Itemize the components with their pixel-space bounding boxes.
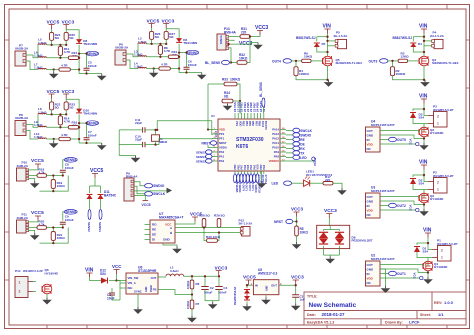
net flag LED (U1) xyxy=(293,155,300,159)
U1 left pins xyxy=(212,129,218,131)
wire xyxy=(229,43,258,45)
svg-text:Sheet:: Sheet: xyxy=(420,313,431,317)
wire xyxy=(63,160,64,169)
resistor R6 100k (fb top) xyxy=(190,280,194,289)
wire xyxy=(59,114,61,116)
wire xyxy=(179,44,202,73)
svg-text:10KΩ: 10KΩ xyxy=(300,231,309,235)
wire xyxy=(175,227,204,229)
svg-text:DE: DE xyxy=(152,233,156,237)
resistor R25 5R xyxy=(64,32,68,40)
wire xyxy=(191,276,193,280)
wire xyxy=(423,190,425,199)
svg-text:OUT4: OUT4 xyxy=(272,59,281,63)
svg-text:PA11: PA11 xyxy=(272,141,279,145)
svg-text:INH: INH xyxy=(128,286,133,290)
U1 bottom pins xyxy=(234,171,236,174)
diode D8 PESD5V0L2BT xyxy=(317,225,350,248)
net flag OUT5 xyxy=(389,137,397,141)
wire xyxy=(78,57,80,59)
svg-text:OUT: OUT xyxy=(367,195,374,199)
svg-text:VIN_SW: VIN_SW xyxy=(128,276,139,280)
svg-text:LPCF: LPCF xyxy=(409,320,420,325)
wire xyxy=(428,243,432,250)
svg-text:8MHZ: 8MHZ xyxy=(159,140,168,144)
net flag SENN2 xyxy=(86,51,99,56)
diode D10 TN4148W xyxy=(76,109,82,113)
svg-text:SENN3: SENN3 xyxy=(87,121,98,125)
svg-text:5Ω: 5Ω xyxy=(155,35,160,39)
wire xyxy=(205,300,219,302)
wire xyxy=(279,284,296,286)
svg-text:100nF: 100nF xyxy=(88,133,97,137)
wire xyxy=(427,273,429,278)
U1 right pins xyxy=(280,129,286,131)
wire xyxy=(392,61,394,67)
wire xyxy=(40,228,69,244)
diode D8 TN4148W xyxy=(76,39,82,43)
wire xyxy=(158,290,192,295)
svg-text:PESD5V0L2BT: PESD5V0L2BT xyxy=(352,239,373,243)
wire xyxy=(324,254,340,256)
junction xyxy=(423,36,425,38)
svg-text:MCP1416T-E/OT: MCP1416T-E/OT xyxy=(371,257,395,261)
svg-text:SENS3: SENS3 xyxy=(196,150,206,154)
svg-text:PB4: PB4 xyxy=(245,121,248,126)
svg-text:RO: RO xyxy=(152,223,157,227)
svg-text:Drawn By:: Drawn By: xyxy=(385,321,403,325)
svg-text:BL_SEN5: BL_SEN5 xyxy=(205,61,220,65)
wire xyxy=(51,40,53,45)
resistor R14 4.7K xyxy=(58,116,62,125)
power flag VCC (vertical) xyxy=(416,142,419,145)
svg-text:OUT: OUT xyxy=(271,284,277,288)
net flag SWDIO (vertical, under U1) xyxy=(253,174,256,183)
wire xyxy=(119,288,121,300)
wire xyxy=(137,294,139,307)
svg-text:TN4148W: TN4148W xyxy=(183,41,197,45)
svg-text:VDDA: VDDA xyxy=(219,146,227,150)
svg-text:S54: S54 xyxy=(419,116,425,120)
svg-text:S54: S54 xyxy=(419,182,425,186)
wire xyxy=(26,61,38,70)
svg-text:OUT5: OUT5 xyxy=(397,138,406,142)
net flag SWCLK xyxy=(145,192,153,196)
svg-text:OUT3: OUT3 xyxy=(369,59,378,63)
wire xyxy=(417,252,432,258)
ground xyxy=(34,233,36,235)
transistor Q3 HY1904D xyxy=(419,127,429,137)
net flag SWCLK (vertical, under U1) xyxy=(256,174,259,183)
wire xyxy=(191,309,193,316)
wire xyxy=(423,124,425,133)
svg-text:MCP1416T-E/OT: MCP1416T-E/OT xyxy=(371,123,395,127)
svg-text:BOOT0: BOOT0 xyxy=(264,121,267,130)
svg-text:D5: D5 xyxy=(322,42,326,46)
svg-text:10KΩ: 10KΩ xyxy=(57,184,66,188)
svg-text:R33: R33 xyxy=(222,78,228,82)
svg-text:VCC3: VCC3 xyxy=(291,207,304,212)
svg-text:5Ω: 5Ω xyxy=(169,35,174,39)
diode D2 S54 xyxy=(410,179,416,185)
resistor R24 5R xyxy=(50,32,54,40)
power flag VCC (vertical) xyxy=(416,208,419,211)
resistor R7 100k (fb bottom) xyxy=(190,300,194,309)
svg-text:S54: S54 xyxy=(100,272,106,276)
wire xyxy=(119,144,142,146)
svg-text:SENN2: SENN2 xyxy=(87,52,98,56)
ground (Q5) xyxy=(328,80,330,82)
svg-text:VDD: VDD xyxy=(238,121,241,126)
wire xyxy=(79,53,85,55)
wire xyxy=(184,275,219,277)
net flag TX (U1) xyxy=(293,151,300,155)
wire xyxy=(26,131,38,140)
wire xyxy=(63,212,64,221)
net flag SWCLK (U1) xyxy=(293,128,300,132)
wire xyxy=(153,69,155,71)
svg-text:PB3: PB3 xyxy=(242,121,245,126)
junction xyxy=(391,60,393,62)
wire xyxy=(46,126,68,128)
wire xyxy=(46,57,68,59)
wire xyxy=(208,83,224,85)
svg-text:R7: R7 xyxy=(196,302,200,306)
wire xyxy=(333,183,342,188)
wire xyxy=(53,139,55,141)
svg-text:VCC5: VCC5 xyxy=(31,158,44,164)
wire xyxy=(424,175,428,182)
svg-text:SWCLK: SWCLK xyxy=(300,129,312,133)
junction xyxy=(50,113,52,115)
net flag OUT4 (vertical, under U1) xyxy=(240,174,243,183)
wire xyxy=(417,243,428,245)
wire xyxy=(159,139,213,145)
wire xyxy=(146,68,159,70)
junction xyxy=(150,43,152,45)
wire xyxy=(423,139,425,144)
svg-text:PA0: PA0 xyxy=(219,150,225,154)
svg-text:D4: D4 xyxy=(418,42,422,46)
wire xyxy=(208,129,212,131)
wire xyxy=(380,143,416,145)
wire xyxy=(29,175,37,177)
wire xyxy=(296,236,298,242)
svg-text:VDD: VDD xyxy=(219,128,225,132)
svg-text:PF1: PF1 xyxy=(219,137,225,141)
svg-text:SYNC: SYNC xyxy=(134,290,142,294)
svg-text:OUT2: OUT2 xyxy=(248,185,251,192)
svg-text:XH2B-2A: XH2B-2A xyxy=(115,46,129,50)
ground (Q6) xyxy=(46,298,48,300)
wire xyxy=(37,45,39,58)
svg-text:TN4148W: TN4148W xyxy=(83,42,97,46)
wire xyxy=(380,135,424,139)
svg-text:NRST: NRST xyxy=(274,220,283,224)
svg-text:27 PA2: 27 PA2 xyxy=(264,175,268,185)
svg-text:B5817WS-SJ: B5817WS-SJ xyxy=(393,36,413,40)
ground xyxy=(101,74,103,76)
wire xyxy=(151,28,153,31)
wire xyxy=(37,114,39,127)
svg-text:GND: GND xyxy=(163,238,171,242)
svg-text:OUT4: OUT4 xyxy=(241,185,244,192)
resistor R26 5R xyxy=(150,31,154,39)
wire xyxy=(155,130,157,135)
wire xyxy=(118,130,120,156)
svg-text:HY1904D: HY1904D xyxy=(434,265,448,269)
wire xyxy=(328,40,336,42)
svg-text:PA10: PA10 xyxy=(272,146,279,150)
svg-text:RVB4A: RVB4A xyxy=(219,35,223,44)
wire xyxy=(145,224,151,226)
ground (R7) xyxy=(191,316,193,318)
ground (D13) xyxy=(246,304,248,306)
svg-text:VDD: VDD xyxy=(367,276,374,280)
svg-text:RE: RE xyxy=(300,138,304,142)
net flag SENN5 xyxy=(64,210,77,215)
wire xyxy=(317,47,328,52)
wire xyxy=(380,265,424,267)
net flag OUT2 xyxy=(389,203,397,207)
wire xyxy=(178,56,180,58)
wire xyxy=(137,44,139,57)
wire xyxy=(413,184,428,190)
wire xyxy=(323,246,325,255)
ground xyxy=(53,141,55,143)
wire xyxy=(204,228,207,241)
wire xyxy=(26,55,38,58)
U1 top pins xyxy=(234,113,236,119)
svg-text:100nF: 100nF xyxy=(65,166,74,170)
capacitor C3 1uF xyxy=(295,285,297,295)
svg-text:5Ω: 5Ω xyxy=(55,36,60,40)
svg-text:1: 1 xyxy=(437,122,439,126)
border frame ticks xyxy=(46,5,48,329)
svg-text:LED: LED xyxy=(300,156,307,160)
svg-text:GND: GND xyxy=(367,133,375,137)
wire xyxy=(413,47,424,52)
wire xyxy=(157,121,212,135)
wire xyxy=(204,227,242,229)
wire xyxy=(413,109,424,111)
svg-text:SI2302CDS-T1-GE3: SI2302CDS-T1-GE3 xyxy=(336,61,363,65)
svg-text:PA14: PA14 xyxy=(272,128,279,132)
svg-text:AMS1117-3.3: AMS1117-3.3 xyxy=(258,272,278,276)
wire xyxy=(295,61,297,67)
ground (crystal) xyxy=(135,156,137,158)
svg-text:WJ128V-5.0-2P: WJ128V-5.0-2P xyxy=(23,269,43,273)
svg-text:2: 2 xyxy=(19,290,21,294)
svg-text:4.7K: 4.7K xyxy=(164,49,171,53)
wire xyxy=(310,182,323,184)
ground (U3) xyxy=(423,209,425,211)
svg-text:RE: RE xyxy=(152,228,156,232)
wire xyxy=(380,269,428,273)
wire xyxy=(248,284,250,287)
wire xyxy=(311,60,323,62)
ground xyxy=(101,143,103,145)
svg-text:VCC5: VCC5 xyxy=(142,203,151,207)
svg-text:SENS5: SENS5 xyxy=(235,185,238,194)
wire xyxy=(427,258,429,267)
diode D3 S54 xyxy=(410,113,416,119)
diode D6 TN4148W xyxy=(176,38,182,42)
wire xyxy=(51,110,53,115)
wire xyxy=(70,138,79,140)
svg-text:XH2B-2A: XH2B-2A xyxy=(15,47,29,51)
net flag SWDIO (U1) xyxy=(293,133,300,137)
svg-text:GND: GND xyxy=(266,285,269,291)
ground (U2 GND pin) xyxy=(385,286,387,288)
svg-text:VIN_A: VIN_A xyxy=(128,281,136,285)
wire xyxy=(70,69,79,71)
transistor Q1 HY1904D xyxy=(423,261,433,271)
svg-text:4.7K: 4.7K xyxy=(64,50,71,54)
svg-text:VDD: VDD xyxy=(367,142,374,146)
wire xyxy=(327,34,329,57)
svg-text:1/1: 1/1 xyxy=(438,312,444,317)
svg-text:PA12: PA12 xyxy=(272,137,279,141)
junction xyxy=(246,284,248,286)
svg-text:4.7K: 4.7K xyxy=(64,119,71,123)
wire xyxy=(408,60,420,62)
svg-text:100KΩ: 100KΩ xyxy=(396,72,406,76)
svg-text:VCC5: VCC5 xyxy=(31,210,44,216)
power flag VCC (vertical) xyxy=(420,276,423,279)
svg-text:DE: DE xyxy=(300,142,304,146)
wire xyxy=(151,39,153,44)
svg-text:2: 2 xyxy=(441,249,443,253)
svg-text:HY1904D: HY1904D xyxy=(430,197,444,201)
svg-text:PA2: PA2 xyxy=(263,164,266,169)
svg-text:SENS4: SENS4 xyxy=(238,185,241,194)
wire xyxy=(413,175,424,177)
svg-text:SI2302CDS-T1-GE3: SI2302CDS-T1-GE3 xyxy=(432,61,459,65)
svg-text:K6T6: K6T6 xyxy=(236,144,248,150)
svg-text:IN: IN xyxy=(367,204,370,208)
wire xyxy=(175,232,219,234)
svg-text:IN: IN xyxy=(255,284,258,288)
wire xyxy=(261,171,263,181)
svg-text:R28 5Ω: R28 5Ω xyxy=(199,214,210,218)
wire xyxy=(247,37,250,63)
junction xyxy=(52,174,54,176)
svg-text:VCC: VCC xyxy=(409,205,413,212)
wire xyxy=(240,101,241,113)
svg-text:REV:: REV: xyxy=(434,301,442,305)
wire xyxy=(53,70,55,72)
svg-text:22pF: 22pF xyxy=(135,137,142,141)
svg-text:XH2B-2A: XH2B-2A xyxy=(15,116,29,120)
wire xyxy=(120,282,126,284)
svg-text:5Ω: 5Ω xyxy=(69,36,74,40)
wire xyxy=(51,29,53,32)
diode D11 BAT54C xyxy=(87,195,93,200)
svg-text:GND: GND xyxy=(145,286,148,292)
ground xyxy=(53,72,55,74)
wire xyxy=(79,114,102,143)
svg-text:5Ω: 5Ω xyxy=(69,105,74,109)
svg-text:HY1904D: HY1904D xyxy=(45,271,59,275)
wire xyxy=(175,222,195,225)
wire xyxy=(79,45,102,74)
wire xyxy=(380,209,416,211)
junction xyxy=(295,220,297,222)
wire xyxy=(134,182,145,186)
wire xyxy=(424,109,428,116)
junction xyxy=(203,226,205,228)
junction xyxy=(207,128,209,130)
wire xyxy=(46,294,48,298)
junction xyxy=(115,279,117,281)
svg-text:PF0: PF0 xyxy=(219,132,225,136)
svg-text:SENN1: SENN1 xyxy=(187,51,198,55)
svg-text:SWDIO: SWDIO xyxy=(300,133,311,137)
wire xyxy=(159,44,161,46)
svg-text:Date:: Date: xyxy=(307,313,316,317)
ground (P9, right-pointing) xyxy=(167,188,173,194)
svg-text:2: 2 xyxy=(437,115,439,119)
net flag OUT2 (vertical, under U1) xyxy=(246,174,249,183)
svg-text:1: 1 xyxy=(437,188,439,192)
svg-text:100nF: 100nF xyxy=(88,64,97,68)
resistor R19 10kR xyxy=(51,180,55,189)
wire xyxy=(380,131,420,133)
wire xyxy=(52,176,54,180)
wire xyxy=(170,68,179,70)
ground xyxy=(34,181,36,183)
junction xyxy=(50,44,52,46)
ground (LED1) xyxy=(341,188,343,190)
net flag DE (U1) xyxy=(293,142,300,146)
svg-text:1: 1 xyxy=(19,281,21,285)
net flag SENS2 (vertical) xyxy=(88,210,91,220)
wire xyxy=(423,34,425,57)
wire xyxy=(134,190,167,192)
wire xyxy=(296,217,298,227)
resistor R28 5R xyxy=(202,219,206,228)
ground (NRST) xyxy=(296,242,298,244)
wire xyxy=(119,155,135,157)
svg-text:SENS2: SENS2 xyxy=(196,159,206,163)
ground (P13) xyxy=(257,43,259,45)
svg-text:10KΩ: 10KΩ xyxy=(57,236,66,240)
svg-text:10KΩ: 10KΩ xyxy=(239,57,248,61)
svg-text:S54: S54 xyxy=(423,250,429,254)
svg-text:4.7R: 4.7R xyxy=(61,64,68,68)
svg-text:SENS4: SENS4 xyxy=(98,222,102,232)
wire xyxy=(66,99,79,108)
svg-text:PB6: PB6 xyxy=(251,121,254,126)
ground (U7) xyxy=(176,247,178,249)
wire xyxy=(166,29,179,38)
junction xyxy=(191,275,193,277)
svg-text:SENS1: SENS1 xyxy=(196,155,206,159)
svg-text:OUT: OUT xyxy=(367,263,374,267)
wire xyxy=(90,278,102,281)
svg-text:GND: GND xyxy=(367,267,375,271)
wire xyxy=(388,60,398,62)
wire xyxy=(47,227,64,229)
svg-text:C2: C2 xyxy=(210,286,214,290)
ground xyxy=(153,71,155,73)
wire xyxy=(117,281,121,284)
wire xyxy=(208,145,212,148)
svg-text:SWCLK: SWCLK xyxy=(153,192,166,196)
wire xyxy=(29,179,35,182)
svg-text:2H-1.5-2A: 2H-1.5-2A xyxy=(334,34,349,38)
